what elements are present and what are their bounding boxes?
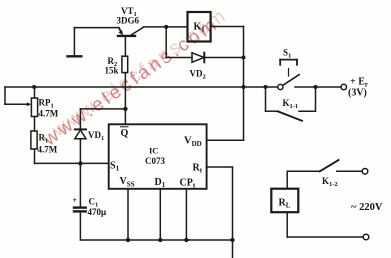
wire RL bottom to 220V terminal <box>287 234 369 240</box>
wire R1 bottom to S1 pin <box>35 149 109 163</box>
svg-text:Q: Q <box>121 128 129 139</box>
relay contact K1-1 <box>266 87 316 121</box>
node Vdd vertical on bus <box>242 85 246 89</box>
svg-text:S1: S1 <box>110 161 120 173</box>
node RP1 top <box>32 85 36 89</box>
svg-text:3DG6: 3DG6 <box>117 16 140 26</box>
svg-text:4.7M: 4.7M <box>39 109 59 119</box>
wire Vdd pin <box>207 139 244 141</box>
svg-text:S1: S1 <box>283 48 291 60</box>
wire Vss pin down <box>127 189 129 240</box>
wire emitter to ground <box>74 27 118 29</box>
pin Q-bar <box>121 127 129 139</box>
node Vss/bus <box>126 238 130 242</box>
capacitor C1 <box>73 163 107 240</box>
wire K1 right to vertical <box>211 26 244 28</box>
watermark www.elecfans.com (echo) <box>48 4 232 141</box>
relay coil K1 <box>188 12 211 42</box>
relay contact K1-2 <box>287 160 368 188</box>
svg-text:IC: IC <box>149 146 158 156</box>
node Rt/bus <box>230 238 234 242</box>
terminal +E (3V) <box>341 77 368 99</box>
svg-text:VD1: VD1 <box>88 130 104 142</box>
wire S1 right to E terminal <box>295 86 341 88</box>
svg-text:4.7M: 4.7M <box>38 145 58 155</box>
wire Rt pin <box>207 167 233 258</box>
main +3V bus wire <box>5 86 278 88</box>
svg-text:VSS: VSS <box>120 176 135 189</box>
svg-text:VDD: VDD <box>184 136 202 149</box>
svg-text:www.elecfans.com: www.elecfans.com <box>39 13 223 150</box>
transistor VT1 <box>118 27 144 56</box>
ground <box>68 28 82 57</box>
node collector/VD2 junction <box>164 25 168 29</box>
node VD2/K1 junction <box>242 56 246 60</box>
node K1-1 branch right <box>314 85 318 89</box>
node CPt/bus <box>184 238 188 242</box>
wire R2 to Q-bar pin <box>124 73 126 125</box>
svg-text:D1: D1 <box>155 177 166 189</box>
switch S1 pushbutton <box>278 48 299 90</box>
node D1/bus <box>158 238 162 242</box>
svg-text:15k: 15k <box>105 66 119 76</box>
svg-text:Rt: Rt <box>193 163 203 175</box>
svg-text:VD2: VD2 <box>190 69 206 81</box>
bottom bus wire <box>80 239 232 241</box>
potentiometer RP1 <box>31 87 58 131</box>
svg-text:RL: RL <box>279 198 291 210</box>
svg-text:(3V): (3V) <box>348 88 367 99</box>
svg-text:~ 220V: ~ 220V <box>351 202 383 213</box>
wire CPt pin down <box>185 189 187 240</box>
label VT1 <box>117 6 140 26</box>
IC U1 C073 box <box>109 124 207 189</box>
svg-text:C073: C073 <box>145 156 165 166</box>
wire collector to K1 <box>144 26 188 28</box>
wire bus left drop to wiper <box>5 87 31 106</box>
node C1/VD1/S1 junction <box>78 161 82 165</box>
watermark www.elecfans.com <box>39 13 223 150</box>
wire D1 pin down <box>159 189 161 240</box>
svg-text:+: + <box>73 196 78 205</box>
svg-text:470μ: 470μ <box>88 207 107 217</box>
svg-text:K1-1: K1-1 <box>283 98 299 110</box>
wire vertical K1/VD2/Vdd <box>243 27 245 141</box>
diode VD1 <box>75 129 104 163</box>
wire Q-bar line to VD1 top <box>80 109 125 129</box>
svg-text:CPt: CPt <box>180 178 196 190</box>
node Q-bar/VD1 junction <box>123 107 127 111</box>
resistor R1 <box>31 131 58 155</box>
svg-text:K1-2: K1-2 <box>322 176 338 188</box>
load RL <box>271 171 298 237</box>
wire VD2 branch <box>166 27 192 58</box>
diode VD2 <box>192 53 244 63</box>
resistor R2 <box>105 56 128 76</box>
node K1-1 branch left <box>264 85 268 89</box>
